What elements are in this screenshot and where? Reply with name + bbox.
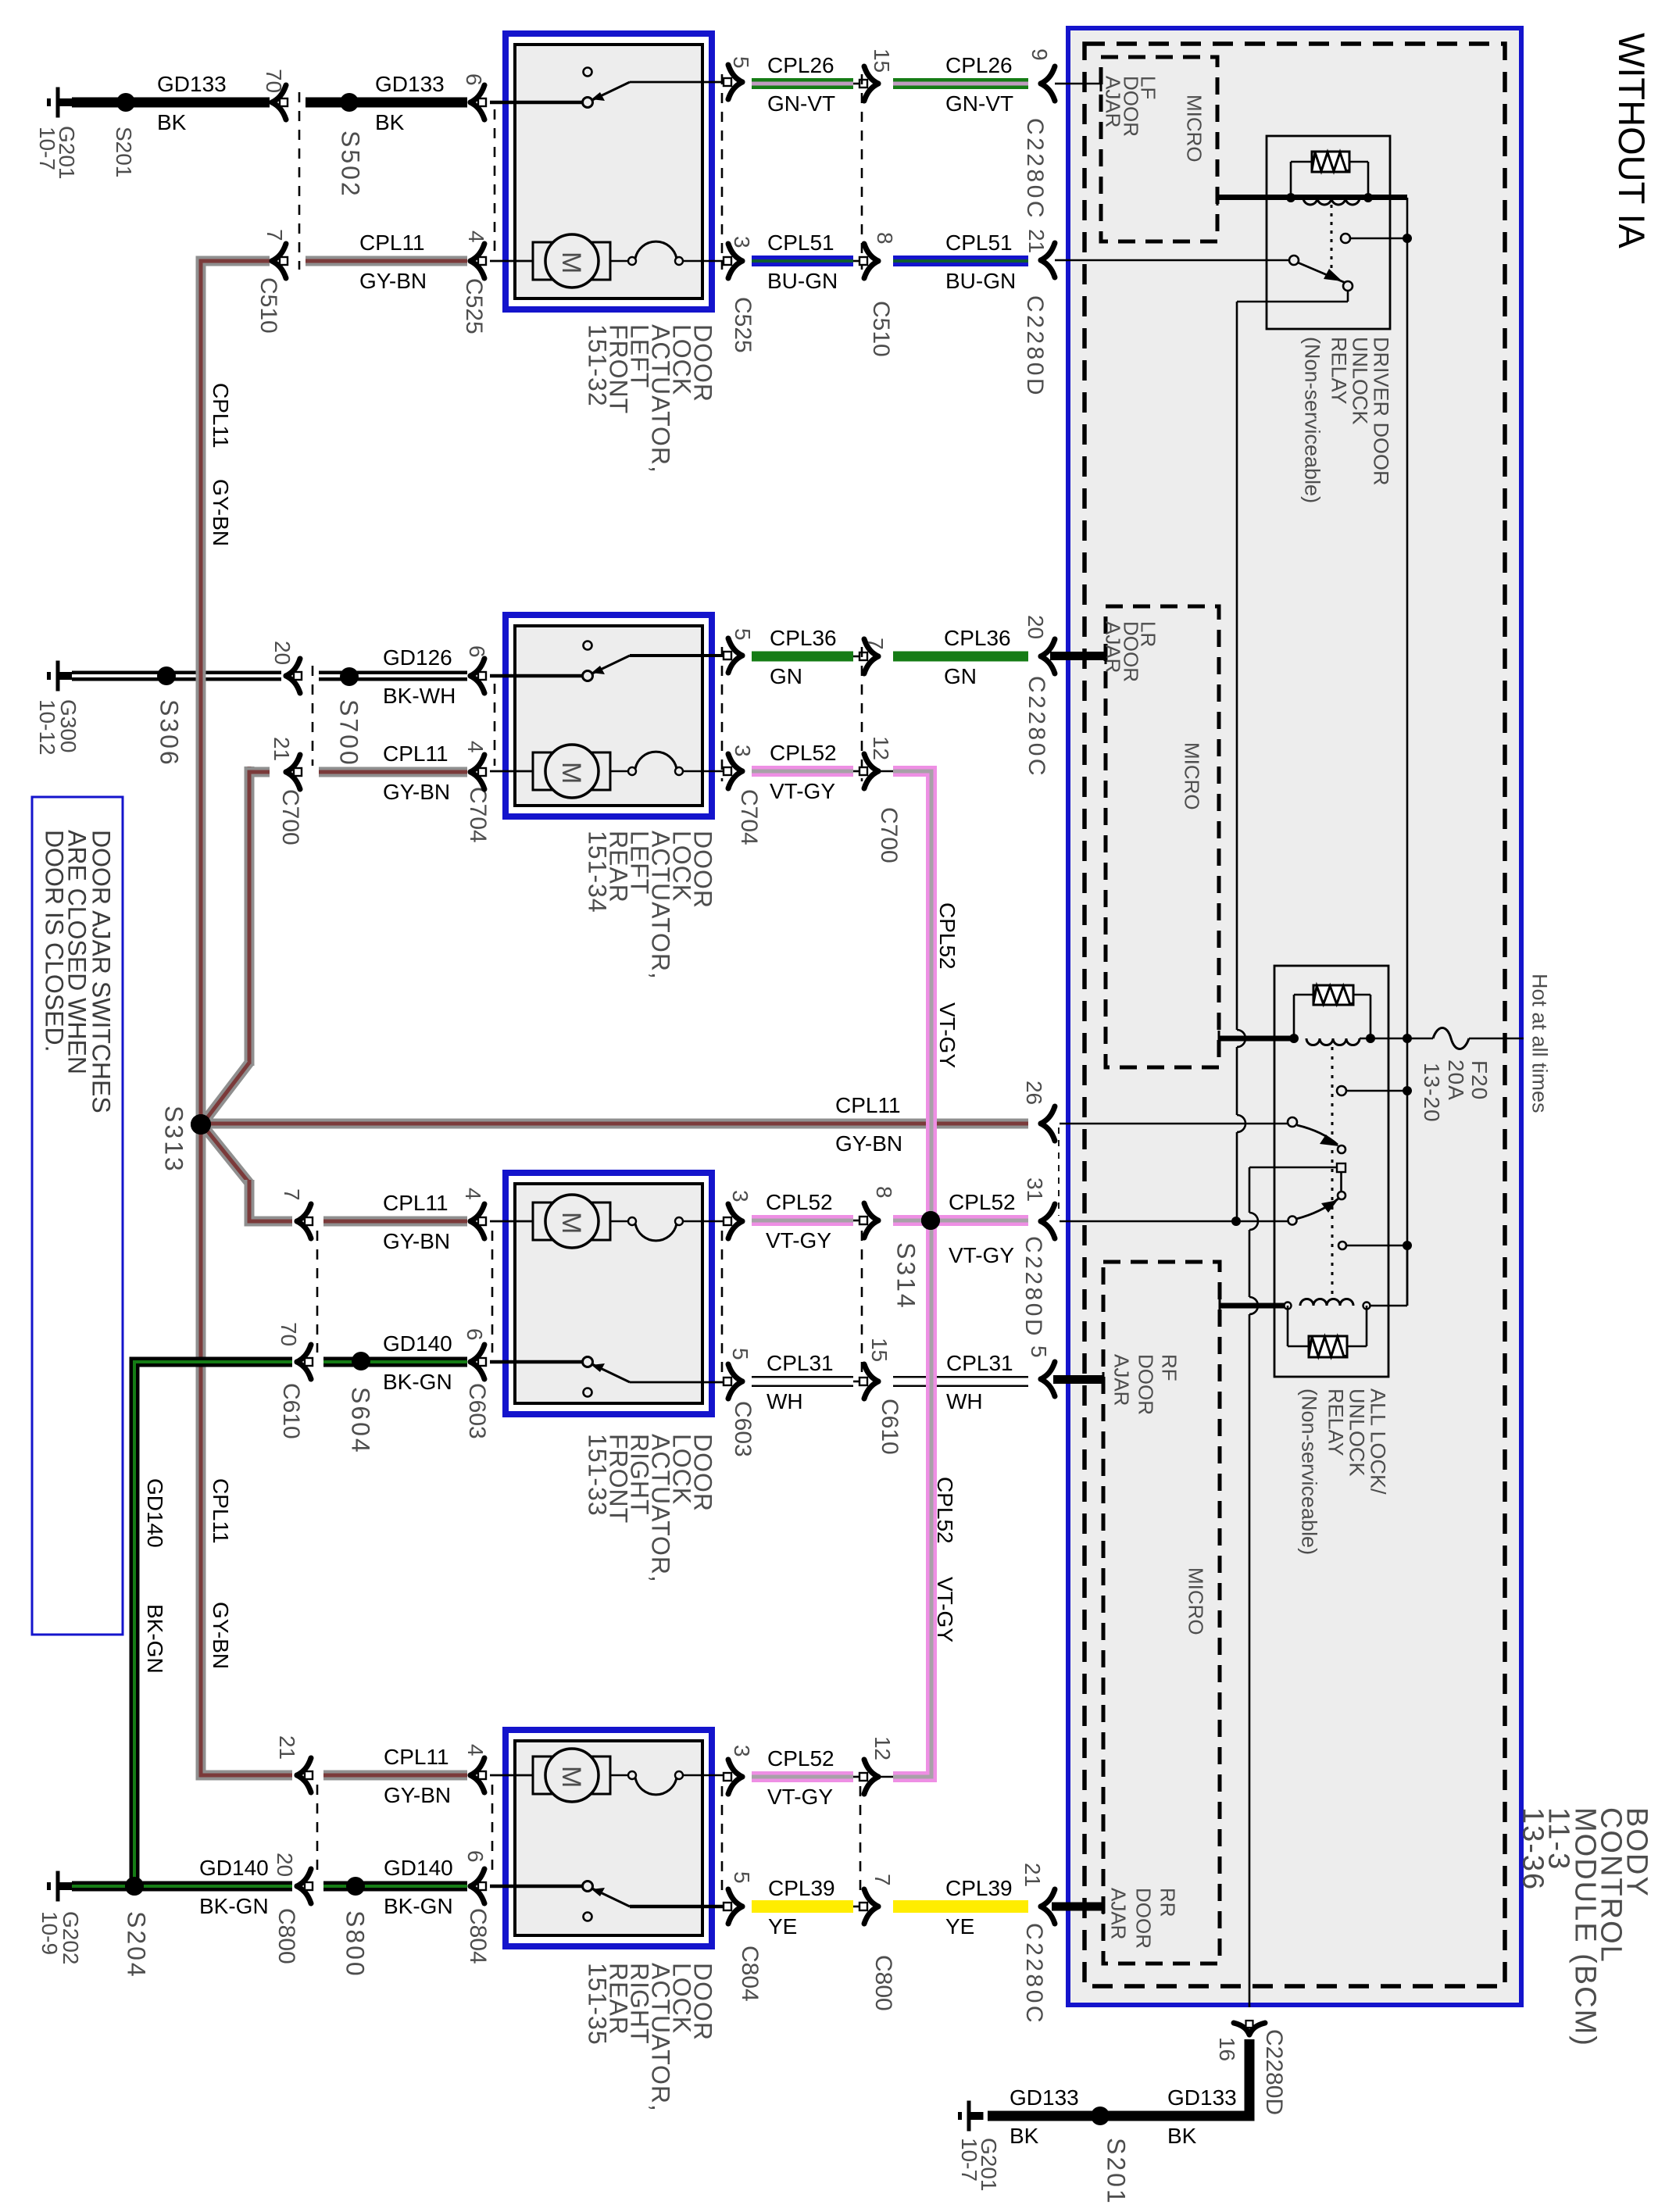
svg-text:CPL31: CPL31 bbox=[946, 1351, 1013, 1375]
wire elbow CPL11 RR corner bbox=[201, 1727, 266, 1775]
driver relay NO contact bbox=[1341, 234, 1350, 243]
wire elbow GD140 RF corner bbox=[134, 1362, 266, 1406]
connector C510 arrow pin 8 bbox=[853, 260, 861, 263]
connector C704 dashed line (right) bbox=[721, 647, 724, 781]
svg-text:MICRO: MICRO bbox=[1185, 1567, 1208, 1635]
BCM pin 20 arrow bbox=[1041, 639, 1055, 656]
all-lock bottom coil feed from micro bbox=[1219, 1298, 1221, 1313]
svg-text:3: 3 bbox=[728, 1190, 752, 1202]
wire CPL52 VT-GY corner to vertical bbox=[878, 770, 893, 773]
svg-text:C804: C804 bbox=[737, 1946, 763, 2002]
LR door ajar switch bbox=[490, 674, 584, 678]
connector C603 arrow pin 4 bbox=[470, 1204, 484, 1221]
svg-text:21: 21 bbox=[1024, 229, 1049, 253]
connector C525 dashed line (right) bbox=[721, 74, 724, 270]
driver relay actuation dotted line bbox=[1331, 205, 1333, 275]
wire CPL52 VT-GY segment S314 to BCM bbox=[936, 1215, 1028, 1226]
wire CPL52 VT-GY segment (RF motor) bbox=[752, 1215, 853, 1226]
connector C800 arrow pin 12 bbox=[853, 1776, 861, 1778]
svg-text:4: 4 bbox=[463, 741, 488, 753]
svg-text:GD126: GD126 bbox=[383, 645, 452, 670]
svg-text:UNLOCK: UNLOCK bbox=[1348, 337, 1371, 425]
svg-text:S800: S800 bbox=[341, 1910, 369, 1978]
wire: BCM pin 20 to LR micro bbox=[1050, 652, 1106, 660]
svg-text:CPL11: CPL11 bbox=[383, 1191, 448, 1215]
svg-text:C525: C525 bbox=[730, 297, 756, 353]
wire CPL11 GY-BN top corner bbox=[196, 256, 270, 266]
wire GD140 BK-GN RF corner bbox=[130, 1357, 293, 1367]
door lock actuator left rear box bbox=[506, 615, 712, 817]
svg-text:7: 7 bbox=[280, 1188, 304, 1201]
connector C704 dashed line (left) bbox=[494, 684, 496, 766]
LF actuator motor bbox=[490, 260, 534, 263]
wire: BCM pin 5 (RF door ajar) to micro bbox=[1053, 1375, 1103, 1384]
connector C804 arrow pin 4 bbox=[470, 1758, 484, 1775]
svg-text:Hot at all times: Hot at all times bbox=[1528, 974, 1551, 1113]
wire GD133 BK from pin 16 bbox=[1245, 2039, 1255, 2121]
svg-text:C610: C610 bbox=[877, 1399, 902, 1455]
svg-text:C804: C804 bbox=[465, 1908, 491, 1964]
svg-text:CPL39: CPL39 bbox=[768, 1876, 835, 1900]
svg-text:C603: C603 bbox=[464, 1383, 490, 1439]
svg-text:5: 5 bbox=[730, 1871, 754, 1884]
svg-text:CPL52: CPL52 bbox=[770, 741, 837, 765]
micro box LR DOOR AJAR bbox=[1106, 606, 1219, 1067]
svg-text:151-34: 151-34 bbox=[583, 831, 611, 913]
svg-text:S306: S306 bbox=[155, 699, 183, 767]
svg-text:S313: S313 bbox=[159, 1106, 188, 1174]
Body Control Module (BCM) box bbox=[1068, 28, 1521, 2005]
svg-text:70: 70 bbox=[262, 69, 286, 93]
svg-text:M: M bbox=[556, 252, 586, 273]
svg-text:C610: C610 bbox=[278, 1383, 304, 1439]
svg-text:C603: C603 bbox=[730, 1401, 756, 1457]
connector C610 arrow pin 7 bbox=[297, 1204, 311, 1221]
wire CPL31 WH segment 2 bbox=[893, 1376, 1028, 1387]
svg-text:4: 4 bbox=[464, 230, 488, 243]
svg-text:C800: C800 bbox=[273, 1908, 299, 1964]
splice S313 redraw2 bbox=[191, 1114, 211, 1135]
svg-text:10-7: 10-7 bbox=[35, 127, 59, 170]
svg-text:S604: S604 bbox=[346, 1387, 374, 1455]
BCM pin 21 arrow (RR door ajar) bbox=[1041, 1889, 1055, 1906]
svg-text:CPL31: CPL31 bbox=[767, 1351, 834, 1375]
svg-text:CPL52: CPL52 bbox=[935, 902, 960, 970]
svg-text:6: 6 bbox=[465, 645, 489, 658]
svg-text:BK-GN: BK-GN bbox=[199, 1894, 269, 1918]
RR door ajar switch bbox=[490, 1885, 584, 1889]
svg-text:M: M bbox=[556, 1766, 586, 1788]
B+ rail vertical from driver relay to all-lock relay bbox=[1406, 198, 1409, 1306]
splice S201 (bottom) bbox=[1091, 2107, 1110, 2125]
svg-text:3: 3 bbox=[730, 236, 754, 248]
wire elbow CPL11 LR branch corner bbox=[249, 772, 266, 813]
svg-text:CPL11: CPL11 bbox=[383, 742, 448, 766]
wire CPL31 WH segment 1 bbox=[752, 1376, 853, 1387]
svg-text:8: 8 bbox=[873, 232, 897, 245]
connector C804 arrow pin 6 bbox=[470, 1869, 484, 1886]
all-lock bottom resistor bbox=[1287, 1306, 1289, 1346]
svg-text:BK: BK bbox=[157, 110, 187, 134]
svg-text:M: M bbox=[556, 762, 586, 784]
splice S314 redraw bbox=[921, 1211, 940, 1230]
svg-text:C800: C800 bbox=[870, 1955, 896, 2011]
svg-text:5: 5 bbox=[728, 1348, 752, 1360]
svg-text:C704: C704 bbox=[736, 789, 762, 845]
svg-text:CPL52: CPL52 bbox=[933, 1477, 957, 1544]
wire CPL52 VT-GY segment 1 (LR) bbox=[752, 766, 853, 777]
svg-text:S204: S204 bbox=[122, 1911, 150, 1979]
BCM pin 26 arrow bbox=[1041, 1106, 1055, 1124]
svg-text:CPL11: CPL11 bbox=[359, 230, 425, 255]
splice S313 bbox=[191, 1114, 211, 1135]
svg-text:26: 26 bbox=[1022, 1081, 1046, 1105]
svg-text:AJAR: AJAR bbox=[1102, 621, 1125, 673]
svg-text:DOOR IS CLOSED.: DOOR IS CLOSED. bbox=[40, 830, 68, 1052]
connector C700 dashed line (right) bbox=[861, 647, 863, 781]
svg-text:CPL11: CPL11 bbox=[209, 383, 233, 448]
wire CPL11 RF diagonal from S313 bbox=[204, 1127, 249, 1183]
svg-text:BK-WH: BK-WH bbox=[383, 684, 456, 708]
svg-text:CPL11: CPL11 bbox=[835, 1093, 901, 1117]
wire elbow CPL11 top corner bbox=[201, 261, 266, 313]
wire GD126 BK-WH segment 2 bbox=[319, 671, 467, 681]
svg-text:GD133: GD133 bbox=[1010, 2085, 1079, 2110]
all-lock top resistor bbox=[1293, 995, 1295, 1038]
all-lock NO contact lower bbox=[1338, 1242, 1346, 1249]
driver relay output wire down to pin31 junction bbox=[1347, 291, 1349, 302]
BCM pin 31 arrow bbox=[1041, 1204, 1055, 1221]
ground G201 (bottom) bbox=[958, 2112, 962, 2120]
svg-text:4: 4 bbox=[461, 1188, 485, 1200]
svg-text:6: 6 bbox=[463, 1328, 487, 1341]
svg-text:GN: GN bbox=[770, 664, 802, 688]
svg-text:4: 4 bbox=[463, 1744, 488, 1756]
connector C700 arrow pin 21 bbox=[286, 755, 300, 772]
all-lock armature upper bbox=[1288, 1117, 1297, 1127]
svg-text:VT-GY: VT-GY bbox=[949, 1243, 1014, 1267]
splice S204 redraw bbox=[125, 1877, 144, 1896]
connector C700 arrow pin 7 bbox=[853, 656, 861, 658]
connector C603 dashed line (left) bbox=[491, 1231, 494, 1353]
wire CPL39 YE segment 2 bbox=[893, 1900, 1028, 1913]
svg-text:C2280C: C2280C bbox=[1024, 676, 1049, 778]
svg-text:RF: RF bbox=[1158, 1354, 1181, 1381]
svg-text:3: 3 bbox=[730, 1745, 754, 1757]
svg-text:WH: WH bbox=[946, 1389, 983, 1413]
svg-text:(Non-serviceable): (Non-serviceable) bbox=[1300, 337, 1324, 503]
wire CPL11 GY-BN to BCM pin 26 bbox=[201, 1119, 1028, 1129]
splice S201 bbox=[116, 93, 135, 112]
svg-text:16: 16 bbox=[1215, 2037, 1239, 2061]
connector C510 arrow pin 70 bbox=[272, 85, 286, 102]
splice S700 bbox=[340, 667, 359, 686]
svg-text:AJAR: AJAR bbox=[1102, 76, 1125, 127]
wire: BCM pin 9 to LF micro bbox=[1066, 83, 1101, 85]
svg-text:20: 20 bbox=[1024, 615, 1048, 639]
ground G201 top left bbox=[47, 98, 51, 106]
door lock actuator right front box bbox=[506, 1173, 712, 1414]
svg-text:MICRO: MICRO bbox=[1181, 742, 1204, 810]
svg-text:S201: S201 bbox=[1102, 2138, 1130, 2206]
svg-text:VT-GY: VT-GY bbox=[935, 1002, 960, 1068]
svg-text:13-20: 13-20 bbox=[1420, 1063, 1444, 1123]
BCM pin 9 arrow bbox=[1041, 66, 1055, 84]
connector C704 arrow pin 6 bbox=[470, 659, 484, 676]
wire CPL52 VT-GY corner (RR) bbox=[893, 1771, 937, 1782]
svg-text:21: 21 bbox=[275, 1735, 299, 1760]
svg-text:6: 6 bbox=[463, 1850, 488, 1863]
svg-text:12: 12 bbox=[869, 736, 893, 760]
svg-text:70: 70 bbox=[277, 1322, 301, 1346]
splice S306 bbox=[157, 666, 176, 685]
wire CPL36 GN segment 2 bbox=[893, 652, 1028, 662]
svg-text:C2280D: C2280D bbox=[1020, 1236, 1046, 1338]
svg-text:AJAR: AJAR bbox=[1107, 1888, 1131, 1939]
micro box RF/RR DOOR AJAR bbox=[1103, 1262, 1220, 1964]
svg-text:C700: C700 bbox=[876, 807, 902, 863]
ground G202 bbox=[47, 1882, 51, 1890]
connector C610 dashed line (right) bbox=[861, 1231, 863, 1375]
svg-text:CPL11: CPL11 bbox=[384, 1745, 449, 1769]
svg-text:GD140: GD140 bbox=[143, 1478, 167, 1548]
svg-text:C700: C700 bbox=[277, 789, 303, 845]
connector C510 dashed line (left) bbox=[298, 92, 301, 270]
wire CPL11 GY-BN RR corner bbox=[196, 1771, 293, 1781]
pin 16 exit bbox=[1234, 2023, 1249, 2035]
svg-text:S700: S700 bbox=[334, 699, 363, 767]
BCM pin 21 arrow bbox=[1041, 243, 1055, 260]
svg-text:CPL26: CPL26 bbox=[767, 53, 834, 77]
connector C510 dashed line (right) bbox=[861, 74, 863, 270]
wire CPL51 BU-GN segment 1 bbox=[752, 256, 853, 266]
wire CPL52 VT-GY segment (RR) bbox=[752, 1771, 853, 1782]
RF door ajar switch bbox=[490, 1360, 584, 1364]
svg-text:C510: C510 bbox=[868, 301, 894, 357]
driver relay resistor bbox=[1290, 162, 1292, 198]
svg-text:GY-BN: GY-BN bbox=[383, 1229, 450, 1253]
connector C525 arrow pin 6 bbox=[470, 85, 484, 102]
svg-text:VT-GY: VT-GY bbox=[766, 1228, 831, 1253]
connector C800 arrow pin 21 bbox=[297, 1758, 311, 1775]
door lock actuator right rear box bbox=[506, 1730, 712, 1946]
svg-text:GY-BN: GY-BN bbox=[209, 479, 233, 546]
svg-text:BK-GN: BK-GN bbox=[384, 1894, 453, 1918]
svg-text:YE: YE bbox=[945, 1914, 974, 1939]
wire CPL51 BU-GN segment 2 bbox=[893, 256, 1028, 266]
connector C700 arrow pin 20 bbox=[286, 659, 300, 676]
svg-text:BK: BK bbox=[375, 110, 405, 134]
svg-text:VT-GY: VT-GY bbox=[933, 1577, 957, 1642]
connector C610 arrow pin 15 bbox=[853, 1381, 861, 1383]
wire GD140 BK-GN bottom segment 1 bbox=[72, 1881, 292, 1892]
svg-text:RELAY: RELAY bbox=[1324, 1388, 1347, 1456]
BCM internal dashed boundary bbox=[1085, 44, 1505, 1986]
svg-text:15: 15 bbox=[867, 1338, 892, 1362]
splice S204 bbox=[125, 1877, 144, 1896]
RR switch out to pin 5 bbox=[728, 1889, 742, 1906]
svg-text:CPL36: CPL36 bbox=[944, 626, 1011, 650]
splice S314 bbox=[921, 1211, 940, 1230]
wire CPL11 GY-BN trunk vertical bbox=[196, 256, 206, 1781]
svg-text:CPL51: CPL51 bbox=[767, 230, 834, 255]
wire elbow CPL11 RF branch corner bbox=[249, 1188, 266, 1221]
wire CPL26 GN-VT segment 1 bbox=[752, 78, 853, 89]
all-lock armature lower bbox=[1296, 1199, 1338, 1219]
svg-text:GN: GN bbox=[944, 664, 977, 688]
connector C700 arrow pin 12 bbox=[853, 770, 861, 773]
connector C804 dashed line (left) bbox=[491, 1785, 494, 1877]
LR actuator motor bbox=[490, 770, 534, 773]
svg-text:ALL LOCK/: ALL LOCK/ bbox=[1366, 1388, 1389, 1495]
wire GD140 BK-GN segment (RF) bbox=[323, 1357, 467, 1367]
splice S604 bbox=[352, 1352, 370, 1370]
wire GD140 BK-GN bottom segment 2 bbox=[323, 1881, 467, 1892]
svg-text:GY-BN: GY-BN bbox=[384, 1783, 451, 1807]
RF switch out to pin 5 bbox=[728, 1364, 742, 1381]
svg-text:BU-GN: BU-GN bbox=[767, 269, 838, 293]
connector C603 arrow pin 6 bbox=[470, 1345, 484, 1362]
LF door ajar switch bbox=[490, 101, 584, 105]
svg-text:CPL26: CPL26 bbox=[945, 53, 1013, 77]
wire: BCM pin 26 to all-lock relay bbox=[1060, 1123, 1289, 1125]
connector C610 arrow pin 70 bbox=[297, 1345, 311, 1362]
svg-text:WITHOUT IA: WITHOUT IA bbox=[1611, 33, 1653, 249]
svg-text:WH: WH bbox=[767, 1389, 803, 1413]
connector C800 arrow pin 20 bbox=[297, 1869, 311, 1886]
all-lock actuation dotted line bbox=[1331, 1047, 1334, 1297]
connector C510 arrow pin 7 bbox=[272, 244, 286, 261]
svg-text:7: 7 bbox=[263, 229, 287, 241]
svg-text:CPL52: CPL52 bbox=[949, 1190, 1016, 1214]
connector C800 dashed line (left) bbox=[316, 1785, 319, 1877]
connector C603 arrow pin 3 (motor out RF) bbox=[728, 1204, 742, 1221]
wire: BCM pin 21 to driver relay contact bbox=[1066, 259, 1289, 262]
svg-text:3: 3 bbox=[731, 745, 755, 757]
svg-text:10-7: 10-7 bbox=[957, 2138, 981, 2182]
svg-text:F20: F20 bbox=[1467, 1060, 1492, 1100]
connector C525 arrow pin 4 bbox=[470, 244, 484, 261]
svg-text:CPL36: CPL36 bbox=[770, 626, 837, 650]
svg-text:M: M bbox=[556, 1212, 586, 1234]
svg-text:151-32: 151-32 bbox=[583, 324, 611, 407]
wire CPL11 GY-BN segment (LR) bbox=[319, 767, 467, 777]
svg-text:CPL52: CPL52 bbox=[767, 1746, 834, 1771]
svg-text:BK: BK bbox=[1010, 2124, 1039, 2148]
wire CPL11 GY-BN segment (RF) bbox=[323, 1217, 467, 1227]
note: door ajar switches are closed when door is closed bbox=[32, 797, 123, 1635]
svg-text:BK-GN: BK-GN bbox=[383, 1370, 452, 1394]
svg-text:GY-BN: GY-BN bbox=[209, 1602, 233, 1669]
connector C510 arrow pin 15 bbox=[853, 83, 861, 85]
connector C804 arrow pin 3 (motor out RR) bbox=[728, 1760, 742, 1777]
door lock actuator left front box bbox=[506, 34, 712, 309]
connector C804 dashed line (right) bbox=[721, 1786, 724, 1895]
connector C700 dashed line (left) bbox=[312, 666, 314, 766]
fuse F20 bbox=[1411, 1038, 1433, 1040]
wire CPL11 GY-BN RF corner bbox=[245, 1217, 292, 1227]
svg-text:10-9: 10-9 bbox=[38, 1911, 62, 1955]
svg-text:7: 7 bbox=[870, 1874, 895, 1886]
svg-text:GD140: GD140 bbox=[199, 1856, 269, 1880]
all-lock bottom coil bbox=[1285, 1303, 1292, 1310]
svg-text:C525: C525 bbox=[461, 278, 487, 334]
svg-text:DRIVER DOOR: DRIVER DOOR bbox=[1369, 337, 1392, 486]
wire GD133 BK segment 1 bbox=[72, 98, 270, 108]
connector C704 arrow pin 3 (motor out) bbox=[728, 754, 742, 771]
svg-text:C704: C704 bbox=[465, 787, 491, 843]
svg-text:GY-BN: GY-BN bbox=[359, 269, 427, 293]
svg-text:S314: S314 bbox=[892, 1242, 920, 1310]
svg-text:GD140: GD140 bbox=[383, 1331, 452, 1356]
svg-text:CPL52: CPL52 bbox=[766, 1190, 833, 1214]
svg-text:C2280C: C2280C bbox=[1022, 118, 1048, 220]
svg-text:20: 20 bbox=[270, 641, 295, 665]
BCM pin 5 arrow (RF door ajar) bbox=[1041, 1362, 1055, 1379]
wire: BCM pin 21 (RR door ajar) to micro bbox=[1052, 1903, 1103, 1911]
svg-text:GN-VT: GN-VT bbox=[945, 91, 1013, 116]
svg-text:7: 7 bbox=[863, 638, 888, 650]
wire CPL11 GY-BN segment 2 (top) bbox=[306, 256, 467, 266]
svg-text:151-33: 151-33 bbox=[583, 1434, 611, 1517]
svg-text:BK: BK bbox=[1167, 2124, 1197, 2148]
connector C704 arrow pin 5 (switch out) bbox=[728, 638, 742, 656]
svg-text:GY-BN: GY-BN bbox=[835, 1131, 902, 1156]
svg-text:12: 12 bbox=[870, 1736, 895, 1760]
svg-text:5: 5 bbox=[1027, 1345, 1051, 1358]
driver relay armature bbox=[1289, 256, 1299, 265]
svg-text:VT-GY: VT-GY bbox=[770, 779, 835, 803]
svg-text:GD133: GD133 bbox=[1167, 2085, 1237, 2110]
svg-text:9: 9 bbox=[1027, 48, 1052, 61]
svg-text:RELAY: RELAY bbox=[1327, 337, 1350, 405]
all-lock top coil bbox=[1289, 1034, 1299, 1043]
wire CPL11 LR diagonal into S313 bbox=[245, 767, 255, 1066]
wire CPL26 GN-VT segment 2 bbox=[893, 78, 1028, 89]
svg-text:5: 5 bbox=[729, 56, 753, 69]
splice S800 bbox=[346, 1877, 365, 1896]
svg-text:6: 6 bbox=[462, 73, 486, 86]
wire GD133 BK segment 2 bbox=[306, 98, 467, 108]
svg-text:21: 21 bbox=[1020, 1863, 1045, 1887]
ground G300 bbox=[47, 672, 51, 680]
svg-text:C2280D: C2280D bbox=[1022, 295, 1048, 398]
svg-text:CPL51: CPL51 bbox=[945, 230, 1013, 255]
wire GD140 BK-GN trunk vertical bbox=[130, 1357, 140, 1892]
connector C525 dashed line (left) bbox=[494, 109, 496, 254]
connector C610 arrow pin 8 bbox=[853, 1220, 861, 1222]
svg-text:VT-GY: VT-GY bbox=[767, 1785, 833, 1809]
all lock/unlock relay box bbox=[1274, 966, 1388, 1377]
svg-text:8: 8 bbox=[872, 1186, 896, 1199]
driver door unlock relay box bbox=[1267, 136, 1390, 329]
svg-text:MICRO: MICRO bbox=[1183, 95, 1206, 163]
wire elbow CPL52 LR corner bbox=[899, 771, 931, 820]
svg-text:(Non-serviceable): (Non-serviceable) bbox=[1297, 1388, 1320, 1555]
svg-text:GN-VT: GN-VT bbox=[767, 91, 835, 116]
svg-text:AJAR: AJAR bbox=[1110, 1354, 1134, 1406]
svg-text:20A: 20A bbox=[1444, 1060, 1468, 1101]
all-lock NO contact upper bbox=[1337, 1086, 1346, 1095]
svg-text:BU-GN: BU-GN bbox=[945, 269, 1016, 293]
splice S502 bbox=[340, 93, 359, 112]
RF actuator motor bbox=[490, 1220, 534, 1223]
svg-text:21: 21 bbox=[270, 737, 294, 761]
svg-text:DOOR: DOOR bbox=[1135, 1354, 1158, 1415]
svg-text:DOOR: DOOR bbox=[1132, 1888, 1156, 1949]
wire CPL52 VT-GY trunk vertical bbox=[926, 766, 937, 1782]
wire elbow CPL52 RR corner bbox=[899, 1727, 931, 1777]
